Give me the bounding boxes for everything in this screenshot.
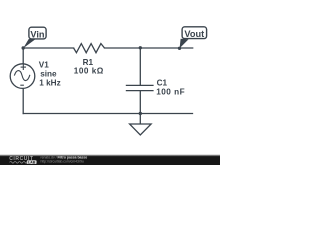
svg-text:1 kHz: 1 kHz bbox=[39, 79, 60, 88]
node C1 top junction bbox=[139, 46, 142, 49]
flag Vin bbox=[23, 27, 46, 48]
svg-text:Vin: Vin bbox=[30, 29, 45, 39]
wire: C1 bottom lead bbox=[139, 91, 141, 113]
svg-text:LAB: LAB bbox=[28, 160, 36, 164]
watermark bar bbox=[0, 154, 220, 165]
wire top-left: Vin node to R1 bbox=[23, 47, 73, 49]
node Vout junction bbox=[178, 47, 181, 50]
svg-text:sine: sine bbox=[40, 70, 57, 79]
voltage source V1 bbox=[10, 64, 35, 89]
wire: V1 top lead bbox=[22, 48, 24, 64]
wire top-right: R1 to Vout node bbox=[105, 47, 193, 49]
svg-text:V1: V1 bbox=[39, 60, 49, 69]
svg-text:R1: R1 bbox=[83, 58, 94, 67]
ground bbox=[130, 124, 152, 135]
node ground junction bbox=[139, 112, 142, 115]
svg-text:100 kΩ: 100 kΩ bbox=[74, 67, 104, 76]
wire: V1 bottom lead bbox=[22, 88, 24, 113]
resistor R1 bbox=[74, 44, 105, 53]
svg-text:C1: C1 bbox=[157, 79, 168, 88]
wire: C1 top lead bbox=[139, 48, 141, 85]
svg-text:http://circuitlab.com/cm43r9u: http://circuitlab.com/cm43r9u bbox=[41, 160, 84, 164]
svg-text:Vout: Vout bbox=[184, 29, 204, 39]
wire: ground stub bbox=[139, 114, 141, 125]
svg-text:100 nF: 100 nF bbox=[156, 87, 185, 96]
flag Vout bbox=[180, 27, 207, 48]
node Vin junction bbox=[22, 46, 25, 49]
wire bottom: V1 to ground net bbox=[23, 113, 192, 115]
capacitor C1 bbox=[126, 85, 154, 90]
